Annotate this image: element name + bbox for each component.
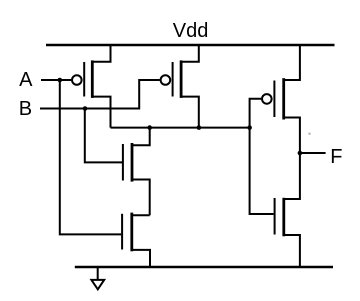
nmos M6 (275, 153, 300, 267)
svg-text:Vdd: Vdd (173, 20, 209, 42)
svg-text:A: A (19, 69, 33, 91)
pmos M1 (72, 45, 111, 128)
pmos M2 (161, 45, 199, 128)
nmos M4 (122, 213, 150, 267)
node A junction dot (58, 78, 63, 83)
svg-text:F: F (330, 146, 342, 168)
pmos M5 (262, 45, 300, 153)
wire node to M6 gate (250, 128, 274, 214)
node F junction dot (298, 151, 303, 156)
wire input A (41, 79, 71, 81)
node junction dot at M2 drain (197, 125, 202, 130)
nmos M3 (123, 128, 150, 216)
Vdd rail (46, 44, 335, 47)
node junction dot at inverter input (247, 125, 252, 130)
wire NAND output node (111, 127, 250, 129)
ground rail (75, 266, 333, 269)
ground symbol (91, 267, 104, 289)
svg-text:B: B (19, 98, 32, 120)
wire A to M4 gate (60, 80, 121, 234)
node junction dot at M3 drain (147, 125, 152, 130)
node B junction dot (83, 106, 88, 111)
wire output F (300, 152, 326, 154)
stray mark (309, 133, 311, 135)
wire input B (40, 80, 160, 109)
wire B to M3 gate (85, 109, 122, 163)
wire inverter input to M5 gate (250, 99, 261, 128)
